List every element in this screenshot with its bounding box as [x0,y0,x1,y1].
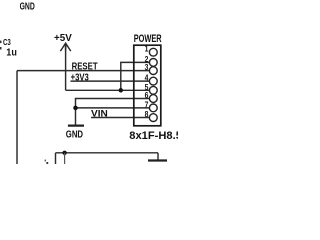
pin 3 circle [149,67,157,75]
pin 5 circle [149,86,157,94]
connector J POWER box [134,45,161,126]
wire RESET horizontal to pin 3 [17,70,150,72]
wire bottom horizontal [56,152,159,154]
svg-text:1: 1 [145,44,149,54]
svg-text:1u: 1u [6,48,17,59]
svg-text:C3: C3 [3,37,11,47]
wire pin7 horizontal [76,107,150,109]
junction dot pin7 row [73,106,78,111]
pin 2 circle [149,59,157,67]
pin 4 circle [149,77,157,85]
wire +5V vertical shaft down to pin5 row [65,44,67,91]
svg-text:8x1F-H8.5: 8x1F-H8.5 [129,130,178,142]
pin 7 circle [149,104,157,112]
ground symbol GND middle [68,124,84,126]
svg-text:GND: GND [20,1,35,12]
svg-text:GND: GND [66,130,83,141]
svg-text:+5V: +5V [54,33,72,44]
pin 6 circle [149,95,157,103]
wire bottom-left vertical [55,153,57,164]
wire +3V3 horizontal to pin 4 [71,80,150,82]
wire VIN horizontal to pin 8 [91,117,150,119]
svg-text:7: 7 [145,99,149,109]
ground symbol bottom-right [148,159,167,161]
junction dot pin5 row [119,88,124,93]
capacitor C3 (body off-canvas left; plate ends at edge) [0,41,2,44]
wire GND vertical pins 6-7 [76,99,150,125]
pin 1 circle [149,48,157,56]
wire RESET vertical at left [16,71,18,164]
wire riser pin2 from pin5 row [121,62,150,90]
junction dot bottom [62,151,66,155]
wire below bottom junction [64,153,66,164]
supply + mark (cut off at bottom) [45,160,46,162]
svg-text:3: 3 [145,62,149,72]
wire to bottom-right ground [157,153,159,160]
wire +5V horizontal pin5 row [66,89,150,91]
pin 8 circle [149,114,157,122]
svg-text:8: 8 [145,109,149,119]
supply +5V arrow symbol [60,43,70,51]
